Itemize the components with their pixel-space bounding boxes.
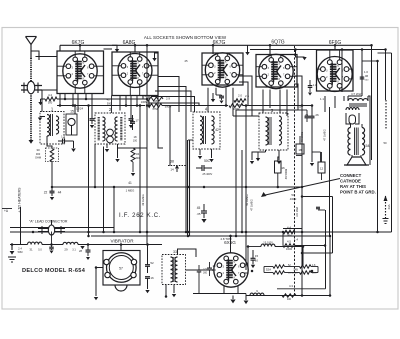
resistor R18 box bbox=[296, 136, 304, 154]
label 47b rot bbox=[250, 199, 254, 210]
svg-text:43A: 43A bbox=[387, 204, 391, 209]
inductor T2 pri core bbox=[98, 117, 100, 141]
svg-text:50: 50 bbox=[383, 141, 387, 145]
svg-text:6Q7G: 6Q7G bbox=[271, 40, 284, 46]
svg-text:100M: 100M bbox=[286, 248, 292, 251]
resistor R44b bbox=[283, 226, 295, 238]
capacitor C14b bbox=[207, 262, 217, 276]
capacitor C36 bbox=[145, 276, 154, 289]
wire r39 bottom bbox=[131, 162, 135, 176]
label IF 262 KC bbox=[119, 213, 161, 219]
label 29 500M mid bbox=[165, 97, 172, 109]
label 40 bbox=[245, 194, 249, 205]
wire right x294 shield bbox=[294, 46, 296, 296]
vibrator socket bbox=[104, 253, 137, 283]
wire c22 feed bbox=[51, 162, 54, 189]
pointer line to B point bbox=[261, 179, 340, 198]
svg-text:3.1: 3.1 bbox=[72, 249, 76, 252]
capacitor C17 bbox=[130, 115, 135, 130]
wire V3 pins down bbox=[208, 88, 233, 116]
node ant tap cross bbox=[36, 53, 58, 60]
resistor R44 bbox=[45, 93, 57, 105]
capacitor C22 bbox=[50, 187, 55, 200]
resistor R45b bbox=[283, 240, 295, 252]
label 14 right bbox=[294, 238, 298, 242]
resistor R19 dark bbox=[141, 94, 163, 104]
inductor T3 secondary bbox=[279, 116, 282, 145]
svg-text:50M: 50M bbox=[18, 251, 23, 254]
transformer T5 output vert coils bbox=[348, 128, 365, 156]
resistor R39 mid bbox=[131, 148, 140, 162]
ground arrow ant lead bbox=[29, 140, 34, 144]
svg-text:1.0: 1.0 bbox=[297, 105, 301, 109]
inductor T3 pri core bbox=[269, 117, 271, 145]
label VIBRATOR bbox=[110, 239, 134, 244]
label 36 16M bbox=[295, 206, 299, 216]
svg-text:12/24: 12/24 bbox=[76, 107, 83, 111]
svg-text:15: 15 bbox=[70, 110, 74, 114]
transformer T4 IF2 box bbox=[193, 112, 220, 149]
wire T3 route bbox=[250, 152, 266, 164]
wire mid vertical x103 bbox=[103, 147, 105, 233]
wire V1 left pin bbox=[42, 90, 57, 112]
svg-text:54: 54 bbox=[366, 144, 370, 148]
label 3 T3 bbox=[271, 108, 274, 113]
svg-text:4.3: 4.3 bbox=[289, 284, 293, 288]
svg-text:500: 500 bbox=[48, 101, 53, 105]
resistor R48 bbox=[148, 99, 162, 111]
svg-text:47 1MEG: 47 1MEG bbox=[323, 129, 327, 140]
capacitor C50C bbox=[196, 159, 212, 176]
svg-text:26: 26 bbox=[315, 113, 319, 117]
wire step3 bbox=[155, 91, 191, 112]
arrow coil1 left bbox=[38, 117, 45, 121]
label 39 MEG bbox=[141, 194, 145, 205]
label 6A8G V2 bbox=[123, 40, 136, 46]
wire V4 pins down bbox=[263, 90, 287, 117]
svg-text:50C: 50C bbox=[204, 159, 211, 163]
wire 6X5 right pins bbox=[244, 247, 253, 274]
svg-text:1.6: 1.6 bbox=[364, 70, 368, 74]
inductor L2 secondary bbox=[56, 116, 59, 134]
capacitor C15b bbox=[251, 250, 259, 268]
inductor T2 sec core bbox=[120, 117, 122, 141]
svg-text:42: 42 bbox=[215, 128, 219, 132]
tube V2 6A8G socket bbox=[112, 52, 158, 96]
svg-text:31: 31 bbox=[29, 248, 33, 252]
wire 6X5 bottom bbox=[224, 286, 238, 294]
label 6F6G V5 bbox=[329, 40, 342, 46]
svg-text:100M: 100M bbox=[141, 100, 148, 104]
wire step4 bbox=[151, 97, 195, 113]
svg-text:14: 14 bbox=[170, 168, 174, 172]
capacitor C11 under V5 bbox=[308, 80, 317, 96]
wire res net bbox=[244, 267, 318, 273]
label 6Q7G V4 bbox=[271, 40, 284, 46]
wire V4 top drop bbox=[269, 45, 271, 55]
wire choke bus bbox=[10, 244, 162, 246]
ground gnd far left bbox=[8, 245, 16, 263]
capacitor C24 under V5 bbox=[298, 110, 310, 122]
inductor L30 choke bbox=[28, 242, 43, 251]
svg-text:1.5: 1.5 bbox=[203, 267, 207, 271]
wire bus y236 bbox=[91, 235, 330, 237]
svg-text:52: 52 bbox=[150, 261, 154, 265]
arrow right dashed bot bbox=[383, 219, 389, 224]
svg-text:1 MEG: 1 MEG bbox=[126, 189, 135, 193]
inductor L31 choke bbox=[63, 242, 78, 251]
label 42 bbox=[215, 128, 219, 132]
wire rail y105 bbox=[57, 105, 145, 107]
svg-text:52A: 52A bbox=[266, 268, 271, 272]
svg-text:4B: 4B bbox=[365, 75, 368, 78]
wire V2 pins down bbox=[120, 96, 149, 119]
wire mid vertical x75 bbox=[74, 106, 76, 115]
inductor L1 core bbox=[51, 114, 53, 136]
wire top bus2 right bbox=[250, 49, 386, 51]
svg-text:40 1MEG: 40 1MEG bbox=[245, 194, 249, 205]
wire right elbows bbox=[348, 96, 370, 101]
svg-text:57: 57 bbox=[119, 267, 123, 271]
label 48 TOM bbox=[220, 237, 232, 241]
wire vib left bbox=[96, 268, 103, 297]
svg-text:44: 44 bbox=[58, 191, 62, 195]
svg-text:400M: 400M bbox=[290, 197, 297, 201]
wire T3 bottom drops bbox=[266, 150, 282, 164]
capacitor C1 under V1 bbox=[90, 119, 95, 124]
wire step5 bbox=[148, 103, 199, 106]
svg-text:47 1MEG: 47 1MEG bbox=[250, 199, 254, 210]
wire choke to vib bbox=[80, 245, 96, 251]
svg-text:C7 WHT: C7 WHT bbox=[351, 92, 363, 96]
transformer T1 ant coil box bbox=[40, 112, 64, 145]
label 43A bbox=[387, 204, 391, 209]
ground gnd vib bbox=[94, 297, 98, 300]
tube V6 6X5G socket bbox=[214, 253, 248, 287]
wire V5 pins down bbox=[325, 96, 344, 112]
wire bus y227 bbox=[10, 227, 114, 229]
transformer T33 power bbox=[162, 255, 186, 285]
trimmer C15 box bbox=[66, 114, 77, 135]
svg-text:15: 15 bbox=[255, 254, 259, 258]
inductor T2 primary bbox=[103, 117, 106, 141]
inductor T3 primary bbox=[266, 117, 269, 145]
wire mid vertical x158 bbox=[158, 96, 163, 149]
svg-text:500 4WATT: 500 4WATT bbox=[288, 272, 299, 275]
note connect cathode bbox=[340, 173, 376, 195]
wire T2 bottom drops bbox=[103, 144, 120, 162]
wire rail y105 r bbox=[162, 105, 228, 107]
svg-text:2.4: 2.4 bbox=[18, 247, 22, 251]
wire mid vertical x119 bbox=[118, 144, 120, 148]
wire mid horiz y148 bbox=[118, 147, 148, 149]
svg-text:300: 300 bbox=[36, 152, 41, 156]
wire top bus bbox=[60, 44, 372, 46]
svg-text:15 1000: 15 1000 bbox=[263, 241, 273, 245]
resistor R12 box bbox=[318, 152, 325, 180]
wire bottom right v bbox=[302, 247, 304, 267]
svg-text:300: 300 bbox=[135, 157, 140, 160]
svg-text:2.9: 2.9 bbox=[166, 97, 170, 101]
wire top bus2 left bbox=[104, 48, 113, 50]
label 2 T2 bbox=[109, 107, 112, 112]
svg-text:1.1: 1.1 bbox=[320, 97, 324, 101]
wire V3 top drop bbox=[212, 45, 214, 54]
label 24 50M bbox=[18, 247, 23, 255]
trimmer C16b bbox=[107, 136, 114, 143]
label 50 400M bbox=[290, 193, 297, 201]
wire mid vertical x242 bbox=[241, 150, 243, 232]
svg-text:4.4: 4.4 bbox=[48, 93, 52, 97]
label 43 xx bbox=[106, 98, 110, 102]
wire right y61 bbox=[362, 60, 378, 62]
transformer T5 core bbox=[349, 104, 367, 106]
wire step6 bbox=[158, 60, 192, 80]
svg-text:VIBRATOR: VIBRATOR bbox=[110, 239, 134, 244]
wire antenna lead shielded bbox=[30, 58, 32, 140]
wire top right steps bbox=[342, 49, 362, 53]
wire mid horiz y140 bbox=[188, 139, 193, 141]
potentiometer R38 volume bbox=[168, 160, 186, 173]
wire right x377 bbox=[377, 61, 379, 232]
wire T2 through x111.5 bbox=[111, 96, 113, 114]
svg-text:5.0: 5.0 bbox=[38, 249, 42, 252]
label 4 T4 bbox=[205, 107, 208, 112]
wire vert x114 bbox=[113, 187, 115, 232]
wire mid vertical x140 bbox=[139, 106, 141, 233]
wire right x392b bbox=[391, 53, 393, 232]
title ALL SOCKETS SHOWN BOTTOM VIEW bbox=[144, 35, 227, 40]
ground gnd coil1 bbox=[94, 186, 97, 189]
svg-text:4.5: 4.5 bbox=[287, 240, 291, 244]
inductor T4 primary bbox=[200, 116, 203, 144]
wire T5 top feeds bbox=[351, 124, 363, 128]
svg-text:28: 28 bbox=[79, 249, 82, 253]
svg-text:POINT B AT GRD.: POINT B AT GRD. bbox=[340, 190, 376, 195]
capacitor C23 under V5 bbox=[310, 106, 315, 123]
wire right dashed x386 bbox=[385, 100, 388, 218]
resistor R400 bottom bbox=[282, 294, 296, 301]
arrow right dashed top bbox=[384, 196, 388, 202]
svg-text:16M: 16M bbox=[287, 235, 292, 238]
svg-text:1.3: 1.3 bbox=[61, 135, 65, 139]
transformer T5 output top coil bbox=[348, 96, 368, 101]
svg-text:1.1: 1.1 bbox=[313, 83, 317, 87]
svg-text:100: 100 bbox=[133, 140, 138, 143]
transformer T5 second row bbox=[346, 108, 359, 124]
wire right x371 bbox=[371, 45, 373, 160]
svg-text:17: 17 bbox=[135, 119, 139, 123]
svg-text:300: 300 bbox=[203, 272, 208, 275]
transformer T2 IF1 box bbox=[95, 113, 125, 144]
inductor T4 secondary bbox=[212, 116, 215, 144]
resistor R20 bbox=[234, 94, 246, 108]
wire top left elbow bbox=[59, 45, 61, 51]
wire rail y99 bbox=[41, 98, 46, 100]
label 22 44c bbox=[44, 191, 62, 195]
label DELCO MODEL bbox=[22, 268, 86, 274]
label 49 500M bbox=[300, 131, 304, 142]
svg-text:DELCO MODEL R-654: DELCO MODEL R-654 bbox=[22, 268, 86, 274]
wire rail y187 bbox=[52, 186, 302, 188]
tube V4 6Q7G socket bbox=[256, 54, 297, 88]
wire V1 pins down bbox=[60, 94, 92, 119]
wire mid horiz y116 bbox=[233, 115, 259, 117]
label 6X5G V6 bbox=[224, 240, 236, 245]
wire right horiz y210 bbox=[316, 207, 325, 210]
wire right x330 bbox=[329, 107, 332, 296]
svg-text:1.9: 1.9 bbox=[142, 94, 146, 98]
wire speaker taps bbox=[352, 155, 361, 157]
inductor L1 primary bbox=[47, 115, 50, 137]
wire right x362 bbox=[361, 53, 363, 96]
capacitor C2 under V2 bbox=[129, 119, 134, 129]
wire bottom 253 drop bbox=[324, 246, 326, 254]
svg-text:34: 34 bbox=[136, 152, 140, 156]
capacitor C13 bbox=[58, 139, 76, 152]
arrow drop x247 bbox=[245, 45, 249, 55]
wire V4 steps right bbox=[294, 76, 302, 110]
capacitor C1p5 left bbox=[197, 265, 208, 294]
choke junction caps bbox=[49, 232, 54, 254]
wire right x385 top bbox=[385, 50, 387, 101]
svg-text:16: 16 bbox=[150, 276, 154, 280]
svg-text:39 1MEG: 39 1MEG bbox=[141, 194, 145, 205]
svg-text:CONNECT: CONNECT bbox=[340, 173, 362, 178]
label 33 bbox=[173, 250, 177, 254]
wire right x325 bbox=[325, 210, 327, 289]
wire right x320 bbox=[320, 152, 322, 162]
ground arrow rail99 bbox=[38, 99, 42, 105]
capacitor C21 under V3 bbox=[216, 95, 224, 100]
ground gnd V3 bbox=[220, 101, 224, 104]
wire right x342 bbox=[341, 52, 343, 92]
wire bottom bus y296 bbox=[193, 294, 330, 296]
antenna connector bbox=[21, 81, 42, 93]
wire right horiz y152 bbox=[312, 152, 321, 162]
antenna bbox=[26, 37, 37, 59]
label 1 T1 bbox=[51, 107, 54, 112]
inductor choke9 bottom bbox=[250, 289, 264, 296]
wire heater vertical bbox=[20, 207, 22, 245]
svg-text:600M: 600M bbox=[237, 103, 244, 107]
wire step V3 right bbox=[239, 76, 252, 116]
label C7 WHT bbox=[351, 92, 363, 96]
wire x147 top bbox=[146, 232, 148, 245]
svg-text:2.5: 2.5 bbox=[245, 94, 249, 98]
label 25 26 bbox=[305, 113, 319, 117]
wire long bus y232 bbox=[10, 231, 392, 233]
label 6K7G V3 bbox=[213, 40, 226, 46]
wire gnd x312 bbox=[310, 163, 314, 166]
label 41 1MEG bbox=[126, 181, 135, 193]
resistor R30 dashed box bbox=[35, 148, 59, 162]
resistor R52A bbox=[273, 264, 299, 275]
inductor T2 secondary bbox=[115, 117, 118, 141]
wire rail y105 rr bbox=[243, 105, 312, 107]
wire 6X5 connect bbox=[186, 269, 214, 271]
svg-text:33: 33 bbox=[173, 250, 177, 254]
wire mid vertical x90 bbox=[88, 106, 90, 237]
arrow drop x213b bbox=[211, 93, 215, 102]
svg-text:29: 29 bbox=[64, 248, 68, 252]
svg-text:49 500M: 49 500M bbox=[284, 168, 288, 179]
wire T33-6X5 top bbox=[178, 249, 197, 257]
wire V2 top drop bbox=[134, 45, 136, 52]
wire right horiz y228 bbox=[283, 228, 302, 230]
svg-text:500: 500 bbox=[107, 103, 112, 106]
ground arrow x246 bottom bbox=[244, 296, 249, 305]
wire T4 bottom drops bbox=[198, 149, 214, 162]
label misc top bbox=[107, 59, 387, 145]
inductor T4 pri core bbox=[204, 116, 206, 144]
resistor R52B bbox=[293, 264, 317, 275]
transformer T3 osc box bbox=[259, 113, 288, 150]
svg-text:43: 43 bbox=[106, 98, 110, 102]
svg-text:18: 18 bbox=[298, 148, 302, 152]
ground gnd right low bbox=[256, 152, 260, 161]
label 28 bbox=[79, 249, 82, 253]
svg-text:14B: 14B bbox=[293, 268, 298, 272]
svg-text:3.6 16M: 3.6 16M bbox=[295, 206, 299, 216]
svg-text:14: 14 bbox=[213, 264, 216, 268]
ground arrow 6X5 bbox=[230, 296, 235, 304]
wire mid vertical x170 bbox=[169, 106, 171, 166]
wire rail y99b bbox=[57, 98, 147, 100]
A lead connector symbol bbox=[38, 220, 65, 235]
wire coil1 to r30 bbox=[47, 136, 52, 148]
wire x147 bottom bbox=[145, 290, 149, 293]
svg-text:400: 400 bbox=[287, 298, 292, 301]
label TO HEATERS bbox=[18, 187, 22, 213]
svg-text:2.0: 2.0 bbox=[238, 94, 242, 98]
svg-text:RAY AT THIS: RAY AT THIS bbox=[340, 184, 366, 189]
wire right horiz y245 bbox=[283, 234, 325, 246]
capacitor C4B bbox=[360, 75, 369, 82]
svg-text:45: 45 bbox=[197, 206, 201, 210]
wire vib top bbox=[120, 245, 122, 251]
wire step2 bbox=[158, 87, 186, 233]
resistor R10 box bbox=[275, 150, 285, 187]
capacitor C45 bbox=[197, 204, 207, 223]
wire mid vertical x188 bbox=[188, 140, 190, 236]
wire right horiz y155 bbox=[296, 155, 302, 157]
label 52A bbox=[266, 268, 271, 272]
wire mid vertical x246 bbox=[245, 106, 247, 271]
wire mid vertical x236 bbox=[235, 110, 237, 236]
svg-text:"A" LEAD CONNECTOR: "A" LEAD CONNECTOR bbox=[29, 220, 68, 224]
wire y288 seg bbox=[277, 273, 326, 289]
label 12 24 bbox=[76, 107, 83, 111]
node A lead stub bbox=[2, 208, 12, 210]
transformer T5 vert core bbox=[355, 128, 359, 156]
vibrator box bbox=[103, 251, 140, 292]
inductor choke15 right bbox=[248, 241, 303, 253]
svg-text:.05: .05 bbox=[197, 212, 201, 216]
svg-text:18: 18 bbox=[134, 135, 137, 139]
arrow drop x304 bbox=[296, 49, 307, 60]
ground gnd V1 bbox=[90, 125, 94, 128]
wire right horiz y196 bbox=[302, 196, 333, 198]
svg-text:30: 30 bbox=[36, 148, 40, 152]
arrow drop x117 bbox=[112, 45, 119, 52]
capacitor C28 bottom bbox=[86, 245, 91, 261]
tube V1 6K7G socket bbox=[57, 51, 104, 94]
label 13 bbox=[61, 135, 65, 139]
svg-text:67M: 67M bbox=[152, 107, 157, 111]
wire mid vertical x163 bbox=[162, 148, 164, 166]
tube V3 6K7G socket bbox=[202, 53, 243, 87]
